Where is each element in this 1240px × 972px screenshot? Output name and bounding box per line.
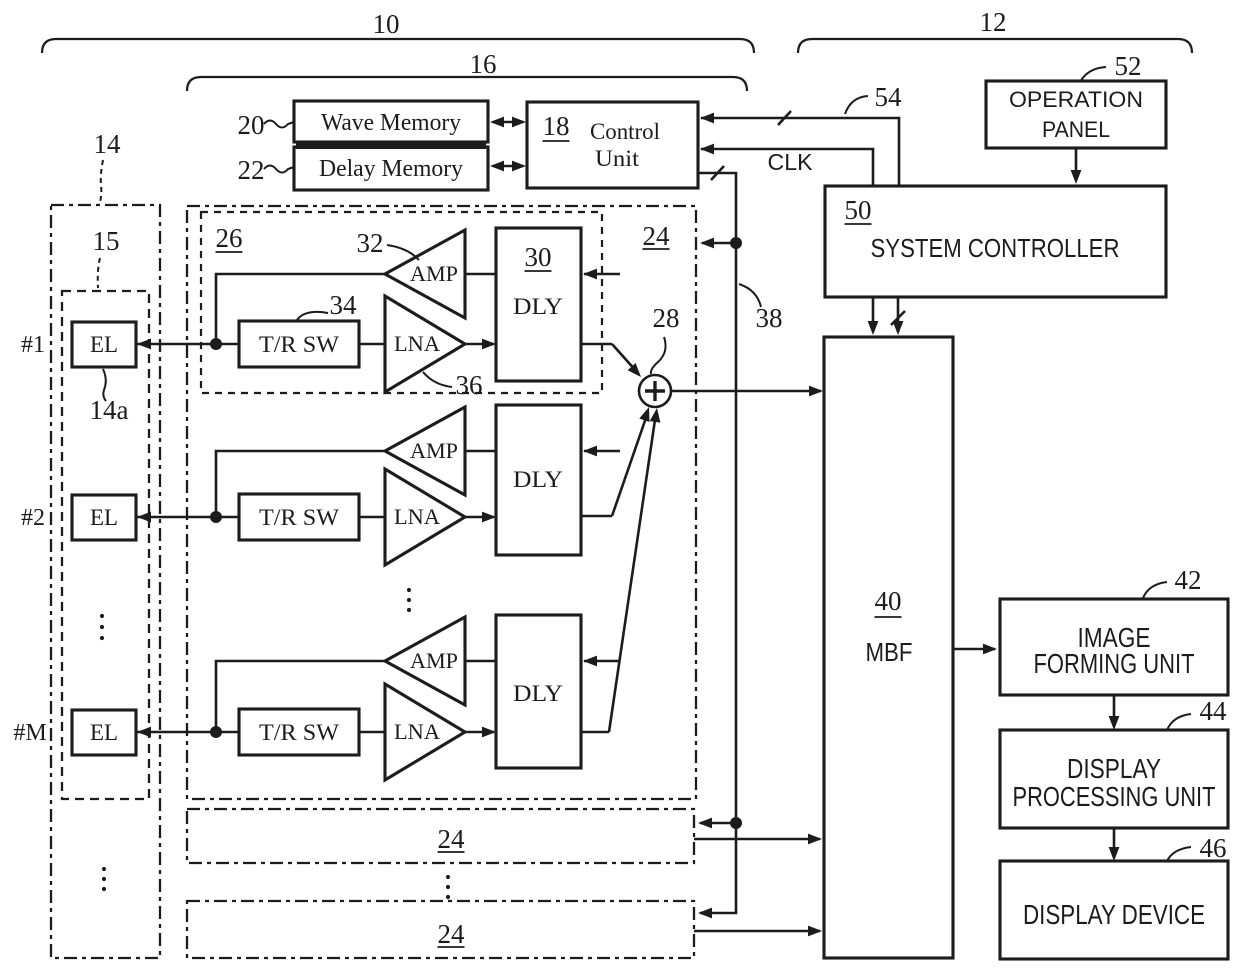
- svg-text:T/R SW: T/R SW: [259, 505, 339, 530]
- svg-text:26: 26: [216, 223, 243, 253]
- svg-text:AMP: AMP: [410, 648, 458, 673]
- svg-text:LNA: LNA: [394, 331, 440, 356]
- svg-text:30: 30: [525, 242, 552, 272]
- svg-text:40: 40: [875, 586, 902, 616]
- svg-text:DLY: DLY: [513, 681, 563, 706]
- svg-text:T/R SW: T/R SW: [259, 332, 339, 357]
- svg-text:OPERATION: OPERATION: [1009, 87, 1143, 112]
- svg-text:EL: EL: [90, 720, 118, 745]
- svg-text:46: 46: [1200, 833, 1227, 863]
- svg-text:PANEL: PANEL: [1042, 117, 1110, 142]
- svg-text:#M: #M: [13, 720, 46, 746]
- svg-text:50: 50: [845, 195, 872, 225]
- svg-text:SYSTEM CONTROLLER: SYSTEM CONTROLLER: [871, 233, 1120, 263]
- svg-text:12: 12: [980, 7, 1007, 37]
- svg-text:DISPLAY DEVICE: DISPLAY DEVICE: [1023, 899, 1205, 930]
- svg-text:Delay Memory: Delay Memory: [319, 156, 463, 182]
- svg-text:24: 24: [438, 824, 466, 854]
- svg-text:AMP: AMP: [410, 261, 458, 286]
- svg-text:36: 36: [456, 370, 483, 400]
- svg-text:LNA: LNA: [394, 504, 440, 529]
- svg-text:DLY: DLY: [513, 467, 563, 492]
- svg-text:14a: 14a: [90, 395, 129, 425]
- svg-text:DISPLAY: DISPLAY: [1067, 753, 1161, 784]
- svg-text:Wave Memory: Wave Memory: [321, 110, 461, 136]
- svg-text:20: 20: [238, 110, 265, 140]
- svg-text:28: 28: [653, 303, 680, 333]
- svg-text:T/R SW: T/R SW: [259, 720, 339, 745]
- svg-text:24: 24: [643, 221, 671, 251]
- svg-text:Control: Control: [590, 119, 660, 144]
- svg-text:14: 14: [94, 129, 122, 159]
- svg-text:MBF: MBF: [866, 637, 913, 667]
- svg-text:DLY: DLY: [513, 294, 563, 319]
- svg-text:18: 18: [543, 111, 570, 141]
- svg-text:Unit: Unit: [595, 146, 640, 171]
- svg-text:#2: #2: [21, 505, 45, 531]
- svg-text:52: 52: [1115, 51, 1142, 81]
- svg-text:CLK: CLK: [768, 149, 814, 175]
- svg-text:38: 38: [756, 303, 783, 333]
- svg-text:44: 44: [1200, 696, 1228, 726]
- svg-text:24: 24: [438, 919, 466, 949]
- svg-text:15: 15: [93, 226, 120, 256]
- svg-text:32: 32: [357, 228, 384, 258]
- svg-text:AMP: AMP: [410, 438, 458, 463]
- svg-text:54: 54: [875, 82, 903, 112]
- svg-text:22: 22: [238, 155, 265, 185]
- svg-text:EL: EL: [90, 332, 118, 357]
- svg-text:34: 34: [330, 290, 358, 320]
- svg-text:PROCESSING UNIT: PROCESSING UNIT: [1013, 781, 1216, 812]
- svg-text:LNA: LNA: [394, 719, 440, 744]
- svg-text:42: 42: [1175, 565, 1202, 595]
- svg-text:#1: #1: [21, 332, 45, 358]
- svg-text:16: 16: [470, 49, 497, 79]
- svg-text:FORMING UNIT: FORMING UNIT: [1034, 648, 1195, 679]
- svg-text:10: 10: [373, 9, 400, 39]
- svg-text:EL: EL: [90, 505, 118, 530]
